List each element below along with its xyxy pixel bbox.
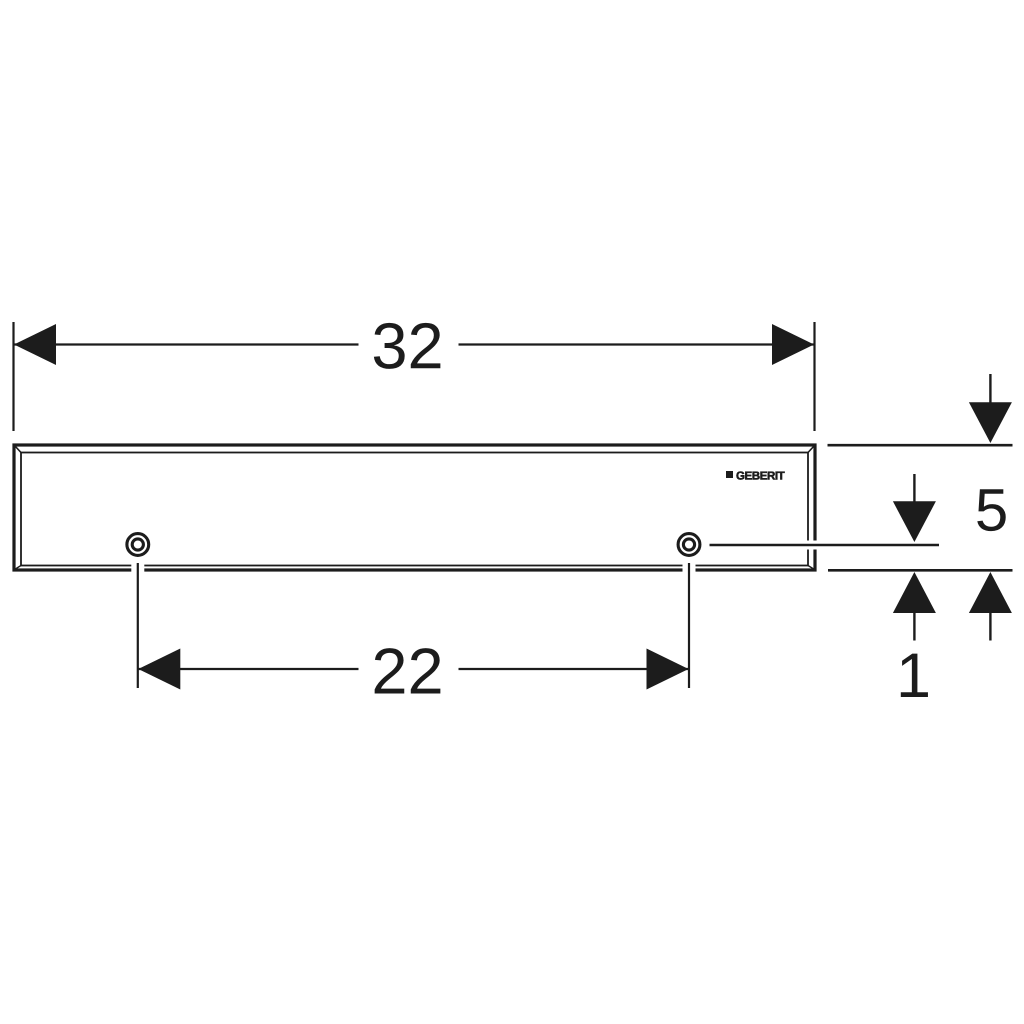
Geberit logo bbox=[726, 471, 785, 480]
hole leader line (white underlay breaks panel edges) bbox=[795, 541, 825, 550]
thickness extension line top bbox=[828, 444, 1013, 447]
chamfer top-left bbox=[15, 446, 22, 453]
dim 22 line right segment bbox=[459, 668, 689, 670]
chamfer bottom-right bbox=[808, 566, 815, 570]
panel outer body bbox=[14, 445, 815, 570]
hole right bbox=[678, 534, 700, 556]
svg-text:22: 22 bbox=[371, 634, 443, 707]
dim 5 bottom arrow (up) bbox=[969, 572, 1012, 641]
dim 5 top arrow (down) bbox=[969, 374, 1012, 443]
dim 22 line left segment bbox=[138, 668, 358, 670]
dim 1 bottom arrow (up) bbox=[893, 572, 936, 641]
dim 32 line left segment bbox=[14, 343, 359, 345]
dim 1 top arrow (down) bbox=[893, 474, 936, 542]
panel inner face bbox=[21, 453, 808, 566]
dim 22 arrow right bbox=[647, 649, 689, 690]
dim 32 arrow right bbox=[772, 324, 814, 365]
svg-text:5: 5 bbox=[975, 476, 1008, 543]
thickness extension line bottom bbox=[828, 569, 1013, 572]
chamfer bottom-left bbox=[15, 566, 22, 570]
dim 32 extension line left bbox=[12, 322, 14, 431]
hole left bbox=[127, 534, 149, 556]
chamfer top-right bbox=[808, 446, 815, 453]
dim 22 arrow left bbox=[138, 649, 180, 690]
dim 32 line right segment bbox=[459, 343, 815, 345]
svg-text:32: 32 bbox=[371, 309, 443, 382]
svg-text:1: 1 bbox=[896, 641, 931, 711]
dim 32 arrow left bbox=[14, 324, 56, 365]
dim 22 extension line left bbox=[131, 564, 144, 575]
dim 22 extension line right bbox=[683, 564, 696, 575]
dim 32 extension line right bbox=[813, 322, 815, 431]
